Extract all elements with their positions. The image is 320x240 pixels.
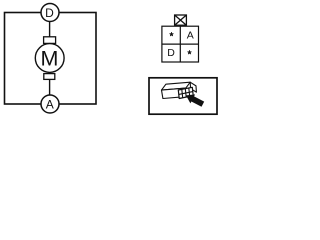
svg-text:M: M xyxy=(41,47,59,71)
svg-text:D: D xyxy=(167,47,175,59)
svg-text:A: A xyxy=(46,97,54,111)
svg-text:D: D xyxy=(45,6,54,20)
svg-text:A: A xyxy=(187,29,194,41)
